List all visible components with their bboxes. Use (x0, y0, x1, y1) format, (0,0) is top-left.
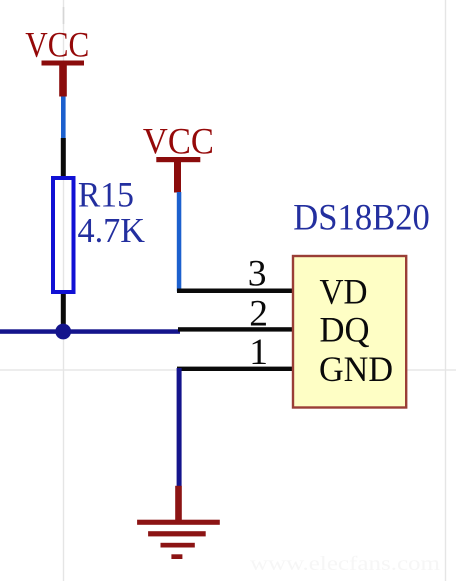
ground symbol bar 4 (171, 554, 182, 559)
power VCC symbol 1 bar (42, 61, 85, 66)
ground symbol bar 2 (148, 531, 206, 536)
wire black segment from R15 bottom (61, 294, 66, 331)
pin 1 wire (177, 367, 292, 371)
ground symbol bar 1 (137, 520, 220, 525)
svg-text:VCC: VCC (143, 121, 214, 162)
svg-text:GND: GND (319, 349, 393, 389)
IC U1 DS18B20 body (293, 256, 406, 408)
wire blue segment from VCC2 to pin 3 (177, 192, 182, 292)
svg-text:DS18B20: DS18B20 (293, 198, 430, 239)
junction node dot (55, 324, 71, 340)
svg-text:VCC: VCC (25, 25, 89, 65)
resistor R15 (53, 178, 74, 292)
svg-text:2: 2 (249, 293, 268, 334)
wire black segment into R15 (61, 138, 66, 177)
wire horizontal DQ net (navy) (0, 329, 180, 334)
pin 2 wire (178, 327, 292, 331)
power VCC symbol 2 bar (156, 157, 200, 162)
svg-text:DQ: DQ (320, 310, 370, 350)
ground symbol stem (175, 486, 182, 522)
svg-text:3: 3 (248, 254, 267, 295)
pin 3 wire (177, 289, 292, 294)
wire blue segment from VCC1 (61, 97, 66, 139)
ground symbol bar 3 (161, 543, 195, 548)
svg-text:www.elecfans.com: www.elecfans.com (250, 553, 441, 575)
power VCC symbol 2 stem (174, 159, 181, 193)
wire vertical GND net (navy) (177, 368, 182, 486)
power VCC symbol 1 stem (59, 63, 67, 97)
svg-text:R15: R15 (78, 175, 134, 215)
svg-text:VD: VD (320, 272, 368, 312)
svg-text:4.7K: 4.7K (78, 211, 146, 250)
svg-text:1: 1 (249, 332, 268, 373)
